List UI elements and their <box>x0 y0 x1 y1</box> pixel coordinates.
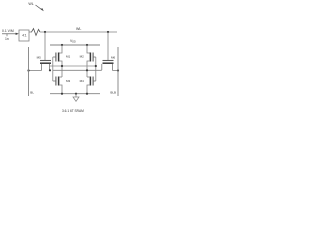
node dot VDD-M2 <box>86 44 88 46</box>
input arrow shaft / fraction bar <box>2 33 17 35</box>
wire M5 to BL <box>29 70 42 72</box>
transistor M4 (NMOS right, vertical channel, gate right) <box>87 77 96 94</box>
node dot BL junction <box>27 69 29 71</box>
wire BL bit line <box>28 47 30 96</box>
wire M6 gate from WL <box>107 32 109 60</box>
node dot BLB junction <box>117 69 119 71</box>
node dot WL-M5 gate <box>44 31 46 33</box>
wire M5 gate from WL <box>44 32 46 60</box>
transistor M2 (PMOS right, vertical channel, gate right) <box>87 45 96 77</box>
svg-text:M1: M1 <box>66 55 70 59</box>
svg-text:3.6.1 6T SRAM: 3.6.1 6T SRAM <box>62 109 84 113</box>
svg-text:VDD: VDD <box>70 39 76 44</box>
wire node Q <box>50 65 96 67</box>
svg-text:WL: WL <box>28 2 33 6</box>
svg-text:BL: BL <box>30 90 34 94</box>
node dot GND-M3 <box>61 93 63 95</box>
svg-text:4:1: 4:1 <box>22 33 27 37</box>
node dot GND-stub <box>75 93 77 95</box>
node dot VDD-M1 <box>61 44 63 46</box>
transistor M5 (access, horizontal channel) <box>40 61 51 71</box>
transistor M3 (NMOS left, vertical channel, gate left) <box>53 77 62 94</box>
callout arrow <box>36 5 43 10</box>
ground symbol <box>73 94 79 102</box>
WL driver box U1 <box>19 30 29 41</box>
node dot Q-right gates <box>95 65 97 67</box>
node dot Q-M1M3 drain <box>61 65 63 67</box>
svg-text:M2: M2 <box>80 55 84 59</box>
node dot GND-M4 <box>86 93 88 95</box>
svg-text:M3: M3 <box>66 79 70 83</box>
svg-text:M4: M4 <box>80 79 84 83</box>
wire GND rail <box>50 93 100 95</box>
node dot QB-M2M4 drain <box>86 69 88 71</box>
transistor M1 (PMOS left, vertical channel, gate left) <box>53 45 62 77</box>
denominator 1n <box>6 34 8 36</box>
svg-text:1n: 1n <box>5 37 9 41</box>
svg-text:WL: WL <box>76 27 81 31</box>
wire node QB <box>53 69 102 71</box>
svg-text:M6: M6 <box>111 55 115 59</box>
node dot QB-left gates <box>49 69 51 71</box>
node dot WL-M6 gate <box>107 31 109 33</box>
arrowhead into box <box>16 33 19 35</box>
wire M6 to BLB <box>113 70 119 72</box>
svg-text:BLB: BLB <box>110 90 116 94</box>
svg-text:0.1 V/M: 0.1 V/M <box>2 29 14 33</box>
wire left gates vertical <box>52 57 54 81</box>
wire BLB bit line <box>117 47 119 96</box>
wire VDD rail <box>50 44 100 46</box>
svg-text:M5: M5 <box>37 55 41 59</box>
wire right gates vertical <box>95 57 97 81</box>
break squiggle on WL <box>32 29 41 36</box>
wire box to squiggle <box>29 31 32 33</box>
wire WL word line <box>40 31 117 33</box>
transistor M6 (access, horizontal channel) <box>102 61 114 71</box>
